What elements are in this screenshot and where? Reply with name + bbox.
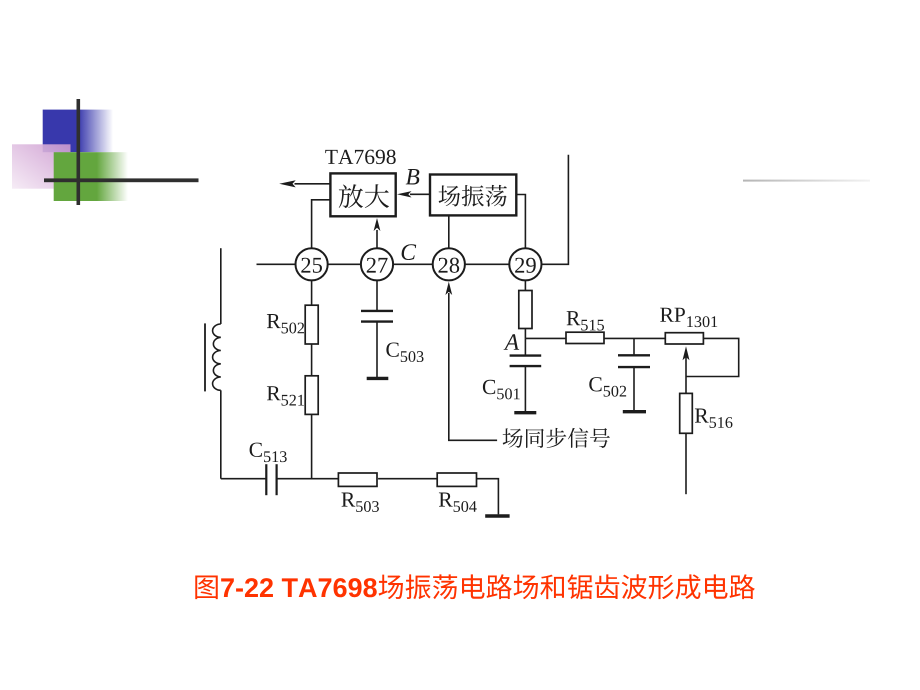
wire pin25 to R502 bbox=[311, 280, 313, 305]
logo purple square bbox=[12, 144, 71, 188]
IC pin 28 bbox=[433, 248, 465, 280]
wire sync-signal line bbox=[449, 293, 497, 440]
wire bus left end bbox=[257, 263, 296, 265]
IC pin 27 bbox=[361, 248, 393, 280]
label TA7698 bbox=[325, 150, 395, 165]
arrow sync into pin28 bbox=[445, 282, 452, 295]
IC pin 29 bbox=[509, 248, 541, 280]
resistor below pin29 bbox=[519, 291, 532, 329]
decor gray line right bbox=[743, 180, 870, 182]
resistor R503 bbox=[338, 473, 379, 512]
inductor coil bbox=[213, 324, 221, 390]
capacitor C501 bbox=[483, 356, 541, 400]
wire C501 to ground bbox=[524, 366, 526, 411]
wire bottom bus to C513 bbox=[221, 478, 266, 480]
wire amp-box left to pin25 bbox=[312, 200, 331, 248]
wire RP1301 right loop bbox=[686, 338, 739, 376]
wire bus 27-28 bbox=[393, 263, 433, 265]
arrow RP wiper bbox=[683, 346, 690, 360]
IC pin 25 bbox=[296, 248, 328, 280]
capacitor C513 bbox=[250, 443, 287, 496]
ground C502 bbox=[623, 410, 646, 413]
wire RP wiper to R516 bbox=[685, 357, 687, 393]
wire osc-box bottom to pin28 bbox=[448, 215, 450, 248]
wire node A to C501 bbox=[524, 338, 526, 354]
node C label bbox=[402, 244, 417, 260]
logo vertical line bbox=[77, 99, 81, 205]
wire node A to R515 bbox=[525, 337, 566, 339]
resistor R521 bbox=[267, 376, 318, 415]
logo green square bbox=[54, 152, 128, 201]
resistor R516 bbox=[680, 393, 733, 433]
resistor R515 bbox=[566, 311, 604, 343]
resistor R504 bbox=[437, 473, 476, 512]
wire C502 top bbox=[633, 338, 635, 354]
wire pin29 to resistor bbox=[524, 280, 526, 290]
wire pin29 to right riser bbox=[542, 155, 569, 264]
wire below R516 bbox=[685, 433, 687, 494]
arrow B into amp bbox=[397, 191, 430, 197]
wire C503 to ground bbox=[376, 322, 378, 378]
wire C513 to R503 bbox=[277, 478, 339, 480]
ground C503 bbox=[367, 377, 389, 380]
logo blue square bbox=[43, 110, 113, 153]
wire coil top bbox=[220, 248, 222, 324]
capacitor C503 bbox=[361, 311, 424, 362]
arrow pin27 into amp bbox=[374, 218, 381, 248]
wire pin27 to C503 bbox=[376, 280, 378, 311]
wire R515 to RP1301 bbox=[604, 337, 665, 339]
wire bus 28-29 bbox=[465, 263, 509, 265]
inductor core line bbox=[204, 323, 206, 391]
wire R503 to R504 bbox=[378, 478, 437, 480]
caption 图7-22 TA7698场振荡电路场和锯齿波形成电路 bbox=[195, 574, 755, 599]
node B label bbox=[406, 169, 420, 184]
capacitor C502 bbox=[589, 355, 650, 396]
ground R504 bbox=[485, 514, 509, 517]
arrow output left bbox=[279, 180, 330, 187]
wire C502 to ground bbox=[633, 367, 635, 410]
resistor R502 bbox=[267, 305, 318, 344]
label sync signal 场同步信号 bbox=[503, 428, 610, 448]
wire R502 to R521 bbox=[311, 344, 313, 376]
block U1 amplifier 放大 bbox=[330, 173, 395, 216]
wire R521 to bottom bus bbox=[311, 414, 313, 478]
block U2 field oscillator 场振荡 bbox=[430, 175, 516, 216]
wire resistor to node A bbox=[524, 329, 526, 339]
wire R504 to ground bbox=[477, 479, 499, 515]
wire coil bottom to bus bbox=[220, 390, 222, 478]
node A label bbox=[504, 334, 520, 350]
ground C501 bbox=[514, 411, 536, 414]
logo horizontal line bbox=[44, 178, 199, 182]
wire bus 25-27 bbox=[328, 263, 361, 265]
potentiometer RP1301 bbox=[660, 308, 717, 344]
wire osc-box right to pin29 bbox=[516, 195, 525, 249]
